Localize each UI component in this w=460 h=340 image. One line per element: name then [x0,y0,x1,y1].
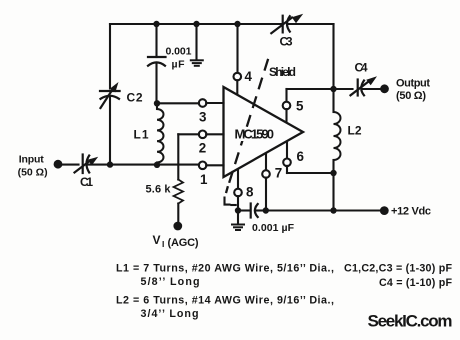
output terminal [380,84,389,93]
svg-text:L1 = 7 Turns, #20 AWG Wire, 5/: L1 = 7 Turns, #20 AWG Wire, 5/16’’ Dia., [116,263,334,275]
node rail L2 junction [330,207,336,213]
wire pin3 to triangle [206,102,223,104]
wire left vertical upper [109,24,111,89]
capacitor C2 variable [100,82,143,108]
pin 4 [234,69,253,95]
wire pin2 left [178,133,199,135]
svg-text:L2 = 6 Turns, #14 AWG Wire, 9/: L2 = 6 Turns, #14 AWG Wire, 9/16’’ Dia., [116,295,334,307]
svg-text:6: 6 [297,149,304,164]
op-amp U1 MC1590 triangle [224,87,304,177]
node pin7 rail junction [263,207,269,213]
wire rail to cap [238,209,250,211]
capacitor C3 variable [271,14,303,49]
shield dashed line [225,60,297,205]
wire left vertical lower [109,98,111,165]
svg-text:8: 8 [246,185,254,200]
capacitor C4 variable [351,61,378,96]
svg-text:Output: Output [396,78,430,90]
svg-text:C2: C2 [127,91,143,105]
label Input (50 ohm) [18,154,48,179]
svg-text:2: 2 [199,141,206,156]
node pin8 ground junction [235,207,241,213]
svg-text:4: 4 [245,69,253,84]
svg-text:V: V [153,233,161,247]
svg-text:Shield: Shield [269,65,296,79]
svg-text:0.001 µF: 0.001 µF [252,222,295,234]
pin 5 [283,89,304,122]
svg-text:C3: C3 [280,35,293,49]
wire pin3 to L1 top [157,102,199,104]
+12 Vdc terminal [380,206,389,215]
svg-text:L1: L1 [134,128,149,142]
label V1 AGC [153,233,199,249]
node top cap junction [153,21,159,27]
wire pin1 to triangle [206,164,223,166]
svg-text:C4: C4 [355,61,368,75]
svg-text:(50 Ω): (50 Ω) [396,90,426,102]
svg-text:I: I [162,239,164,249]
svg-text:(AGC): (AGC) [168,237,199,249]
pin 6 [283,142,333,174]
capacitor 0.001 uF bottom [251,204,295,235]
svg-text:L2: L2 [348,124,362,138]
svg-text:C4 = (1-10) pF: C4 = (1-10) pF [379,277,452,289]
wire output line [287,88,353,90]
svg-text:3/4’’ Long: 3/4’’ Long [141,308,199,320]
wire L2 to rail [332,173,334,211]
wire pin2 to triangle [206,133,223,135]
op-amp U1 label MC1590 [232,127,277,142]
label Output (50 ohm) [396,78,430,103]
pin 3 [199,99,207,124]
wire input line [58,164,79,166]
wire right vertical top [332,24,334,89]
ground top [191,24,203,66]
capacitor 0.001 uF top [148,24,192,103]
pin 1 [199,162,208,188]
svg-text:1: 1 [200,172,208,187]
wire top rail right segment [289,23,334,25]
svg-text:3: 3 [199,110,206,125]
svg-text:5.6 k: 5.6 k [146,184,172,196]
node top ground junction [193,21,199,27]
pin 8 [234,169,254,211]
svg-text:7: 7 [275,166,282,181]
svg-text:5: 5 [296,99,304,114]
wire top rail left segment [110,23,281,25]
pin 7 [262,152,282,210]
inductor L2 [334,89,362,173]
input terminal [54,160,63,169]
svg-text:SeekIC.com: SeekIC.com [368,312,453,331]
ground bottom [232,211,244,231]
svg-text:C1: C1 [80,175,93,189]
svg-text:Input: Input [19,154,45,166]
svg-text:+12 Vdc: +12 Vdc [391,206,431,218]
node L2 bottom junction [330,170,336,176]
svg-text:5/8’’ Long: 5/8’’ Long [141,276,200,288]
pin 2 [199,131,207,156]
svg-text:µF: µF [172,59,186,71]
svg-text:C1,C2,C3 = (1-30) pF: C1,C2,C3 = (1-30) pF [344,263,452,275]
svg-text:(50 Ω): (50 Ω) [18,167,48,179]
resistor 5.6k [146,134,184,230]
node pin4 top junction [234,21,240,27]
svg-text:MC1590: MC1590 [235,127,275,142]
node C2 input junction [107,161,113,167]
node output junction [330,86,336,92]
wire +12V rail [266,209,381,211]
svg-text:0.001: 0.001 [166,46,192,58]
inductor L1 [134,100,164,168]
wire pin4 stub [236,24,238,73]
capacitor C1 variable [75,155,99,190]
